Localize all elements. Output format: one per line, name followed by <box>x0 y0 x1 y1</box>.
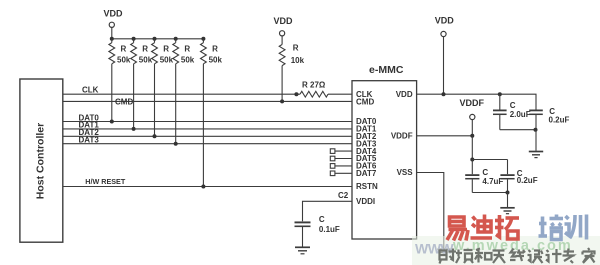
resistor R 50k (DAT2 pull-up) <box>152 39 174 139</box>
svg-text:50k: 50k <box>139 56 153 65</box>
watermark logo char 培 (blue) <box>539 215 564 240</box>
junction dot bottom rail <box>534 128 538 132</box>
svg-text:10k: 10k <box>291 56 305 65</box>
svg-text:VDDI: VDDI <box>356 197 375 206</box>
svg-text:C: C <box>319 215 325 224</box>
svg-text:0.2uF: 0.2uF <box>517 176 538 185</box>
e-MMC box <box>352 81 417 239</box>
wire VDDI to C2 <box>303 201 353 221</box>
svg-text:DAT7: DAT7 <box>356 169 377 178</box>
svg-text:WWW: WWW <box>415 241 454 257</box>
VDD terminal 2 <box>274 16 294 45</box>
wire VDDF caps top rail <box>472 159 507 161</box>
wire to ground (VDD caps) <box>535 130 537 151</box>
watermark logo char 拓 (red) <box>495 215 519 239</box>
resistor R 50k (DAT3 pull-up) <box>173 39 195 146</box>
wire VDDF <box>417 135 473 137</box>
svg-text:R: R <box>163 45 169 54</box>
wire VDD caps bottom rail <box>500 129 536 131</box>
watermark tagline char 专 (gray) <box>563 249 575 264</box>
svg-text:VDD: VDD <box>396 90 413 99</box>
watermark tagline char 设 (gray) <box>528 250 543 263</box>
svg-text:R: R <box>184 45 190 54</box>
junction dot VDD terminal 3 <box>442 92 446 96</box>
wire CLK segment host to R7 <box>63 93 299 95</box>
svg-text:C: C <box>482 168 488 177</box>
wire H/W RESET <box>63 186 352 188</box>
watermark haze band <box>412 236 600 265</box>
wire pull-up bus <box>112 38 204 40</box>
wire CMD <box>63 100 352 102</box>
host controller box <box>20 79 63 242</box>
ground (C2) <box>295 247 310 254</box>
ground (VSS) <box>437 249 450 255</box>
VDD terminal 1 <box>104 9 124 39</box>
wire VDDF caps bottom rail <box>472 192 507 194</box>
junction dot VDDF <box>470 134 474 138</box>
watermark tagline char 计 (gray) <box>546 249 562 263</box>
capacitor C 0.2uF (VDDF) <box>500 160 537 193</box>
resistor R 27ohm (CLK series) <box>294 81 328 98</box>
capacitor C 0.2uF (VDD) <box>529 107 569 130</box>
wire VDD rail <box>417 94 536 109</box>
svg-text:DAT3: DAT3 <box>79 136 100 145</box>
svg-text:VDD: VDD <box>104 9 124 19</box>
watermark logo char 训 (blue) <box>565 215 587 240</box>
watermark tagline char 射 (gray) <box>440 249 457 264</box>
svg-text:H/W RESET: H/W RESET <box>85 177 126 186</box>
wire DAT1 <box>63 128 352 130</box>
svg-text:VDDF: VDDF <box>460 98 485 108</box>
watermark www url text (light green/blue) <box>415 238 573 257</box>
svg-text:R: R <box>293 44 299 53</box>
watermark logo char 迪 (red) <box>471 215 493 239</box>
ground (VDDF caps) <box>500 208 514 214</box>
svg-text:50k: 50k <box>181 56 195 65</box>
VDDF terminal <box>460 98 485 136</box>
svg-text:VDD: VDD <box>435 15 455 25</box>
resistor R 50k (DAT1 pull-up) <box>131 39 153 131</box>
DAT5 stub with square terminal <box>330 156 352 161</box>
junction dot C 2.0uF top <box>498 92 502 96</box>
ground (VDD caps) <box>529 152 543 158</box>
watermark logo char 易 (red) <box>447 217 468 241</box>
resistor R 50k (H/W RESET pull-up) <box>201 39 223 189</box>
capacitor C2 0.1uF <box>295 215 340 246</box>
capacitor C 4.7uF <box>465 160 503 193</box>
resistor R 50k (DAT0 pull-up) <box>109 39 131 124</box>
wire DAT2 <box>63 135 352 137</box>
wire VSS <box>417 173 444 249</box>
svg-text:2.0uF: 2.0uF <box>510 110 531 119</box>
VDD terminal 3 <box>435 15 455 94</box>
svg-text:C: C <box>510 101 516 110</box>
svg-text:e-MMC: e-MMC <box>369 64 404 76</box>
DAT4 stub with square terminal <box>330 149 352 154</box>
svg-text:0.2uF: 0.2uF <box>549 115 570 124</box>
wire to ground (VDDF caps) <box>507 193 509 208</box>
svg-text:50k: 50k <box>160 56 174 65</box>
svg-text:VSS: VSS <box>397 168 414 177</box>
svg-text:CMD: CMD <box>115 97 133 106</box>
watermark tagline char 线 (gray) <box>510 249 525 262</box>
junction dots on pull-up bus <box>110 37 114 41</box>
svg-text:50k: 50k <box>209 56 223 65</box>
watermark tagline char 和 (gray) <box>475 249 492 263</box>
svg-text:R: R <box>142 45 148 54</box>
DAT6 stub with square terminal <box>330 164 352 169</box>
resistor R 10k (CMD pull-up) <box>279 44 304 104</box>
junction dot VDDF bottom rail <box>506 191 510 195</box>
capacitor C 2.0uF <box>493 94 531 130</box>
svg-text:VDDF: VDDF <box>391 132 413 141</box>
svg-text:4.7uF: 4.7uF <box>482 177 503 186</box>
svg-text:CMD: CMD <box>356 97 374 106</box>
svg-text:R 27Ω: R 27Ω <box>302 81 326 90</box>
watermark tagline char 频 (gray) <box>456 250 473 264</box>
svg-text:R: R <box>121 45 127 54</box>
watermark tagline char 天 (gray) <box>493 251 506 264</box>
svg-text:CLK: CLK <box>82 85 99 94</box>
DAT7 stub with square terminal <box>330 171 352 176</box>
svg-text:C2: C2 <box>338 191 349 200</box>
wire CLK segment R7 to e-MMC <box>328 93 352 95</box>
svg-text:50k: 50k <box>117 56 131 65</box>
junction dot VDDF rail <box>470 158 474 162</box>
svg-text:Host Controller: Host Controller <box>35 123 47 199</box>
watermark tagline char 家 (gray) <box>583 248 595 263</box>
svg-text:R: R <box>212 45 218 54</box>
wire DAT0 <box>63 121 352 123</box>
wire VDDF down to caps rail <box>471 136 473 160</box>
wire DAT3 <box>63 143 352 145</box>
svg-text:RSTN: RSTN <box>356 182 378 191</box>
svg-text:VDD: VDD <box>274 16 294 26</box>
svg-text:0.1uF: 0.1uF <box>319 225 340 234</box>
